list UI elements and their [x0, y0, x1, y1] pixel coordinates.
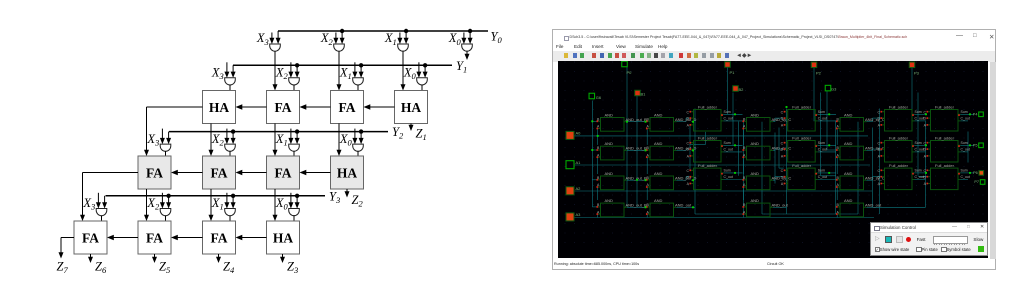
- full adder FA1 (row B): [138, 156, 171, 189]
- full adder row 3 col 4: [923, 162, 969, 189]
- svg-text:Full_adder: Full_adder: [698, 104, 718, 109]
- svg-text:AND_out_B: AND_out_B: [626, 202, 647, 207]
- wire gate output into adder (row 3 col 1): [229, 151, 231, 156]
- svg-text:X0: X0: [339, 132, 353, 148]
- node junction on Y2 at X1 column: [295, 129, 299, 133]
- wire Y3 bus line: [106, 195, 326, 197]
- wire Y2 drop into G31: [166, 132, 171, 145]
- wire gate output into adder (row 3 col 0): [165, 151, 167, 156]
- svg-text:Y1: Y1: [456, 59, 467, 75]
- svg-text:AND: AND: [605, 112, 614, 117]
- AND gate G43 (X1·Y3): [225, 209, 236, 216]
- svg-text:AND: AND: [844, 141, 853, 146]
- pin G6: [589, 93, 602, 100]
- wire Y0 drop into G11: [276, 31, 281, 44]
- state indicator dots: [591, 106, 971, 208]
- wire X3 input stub into G31: [160, 129, 165, 145]
- svg-text:Full_adder: Full_adder: [889, 162, 909, 167]
- wire Y0 bus line: [278, 30, 488, 32]
- wire sum from row A to row B at x=275: [273, 124, 278, 157]
- svg-text:Full_adder: Full_adder: [792, 135, 812, 140]
- wire Y2 drop into G33: [295, 132, 300, 145]
- wire output Z2 from HA row B: [345, 189, 350, 198]
- svg-text:B2: B2: [739, 87, 745, 92]
- svg-text:AND: AND: [654, 197, 663, 202]
- svg-text:Sum: Sum: [915, 109, 922, 113]
- wire X3 input stub into G11: [269, 33, 274, 45]
- full adder row 2 col 3: [877, 135, 923, 162]
- node junction on Y2 at X0 column: [359, 129, 363, 133]
- svg-text:AND: AND: [751, 197, 760, 202]
- full adder row 2 col 4: [923, 135, 969, 162]
- svg-text:Z5: Z5: [159, 260, 170, 276]
- svg-text:Full_adder: Full_adder: [935, 162, 955, 167]
- wire Y3 drop into G43: [231, 196, 236, 209]
- svg-text:A2: A2: [576, 185, 582, 190]
- full adder row 3 col 3: [877, 162, 923, 189]
- svg-text:X0: X0: [275, 196, 289, 212]
- AND gate row 2 col 4: [836, 141, 885, 160]
- full adder row 1 col 2: [781, 104, 827, 131]
- svg-text:P7: P7: [974, 180, 979, 184]
- svg-text:C_out: C_out: [818, 175, 827, 179]
- svg-text:AND: AND: [605, 197, 614, 202]
- wire X1 input stub into G33: [288, 129, 293, 145]
- wire carry arrow row A (HA4 to FA3): [364, 104, 395, 109]
- wire inter-row step connectors: [574, 67, 974, 218]
- wire Y2 drop into G34: [359, 132, 364, 145]
- node output Z3 label: [287, 260, 298, 276]
- wire Y0 drop into G12: [340, 31, 345, 44]
- full adder row 3 col 2: [781, 162, 827, 189]
- node junction on Y1 at X0 column: [423, 63, 427, 67]
- full adder row 3 col 1: [686, 162, 732, 189]
- wire sum from row B to row C at x=146.5: [144, 189, 149, 221]
- svg-text:X0: X0: [448, 31, 462, 47]
- svg-text:C_out: C_out: [818, 147, 827, 151]
- wire output Z4 from row C adder: [216, 254, 221, 263]
- svg-text:HA: HA: [337, 165, 358, 180]
- wire X3 input stub into G41: [96, 193, 101, 209]
- wire gate output into adder (row 2 col 2): [357, 85, 359, 91]
- wire X0 input stub into G34: [352, 129, 357, 145]
- AND gate row 4 col 1: [596, 197, 647, 216]
- svg-text:FA: FA: [211, 165, 228, 180]
- node X1 input label (row 2): [339, 66, 352, 82]
- svg-text:Sum: Sum: [818, 109, 825, 113]
- wire output Z1 from HA row A: [409, 124, 414, 132]
- DSch schematic editor window (right): [552, 29, 996, 271]
- wire Y3 drop into G44: [295, 196, 300, 209]
- svg-text:A3: A3: [576, 212, 582, 217]
- node junction on Y3 at X2 column: [166, 194, 170, 198]
- wire X1 input stub into G43: [224, 193, 229, 209]
- full adder row 1 col 1: [686, 104, 732, 131]
- svg-text:AND: AND: [751, 170, 760, 175]
- svg-text:AND: AND: [751, 141, 760, 146]
- node junction on Y0 at X1 column: [404, 29, 408, 33]
- svg-text:FA: FA: [146, 230, 163, 245]
- full adder row 2 col 1: [686, 135, 732, 162]
- node X0 input label (row 3): [339, 132, 353, 148]
- svg-text:Z6: Z6: [95, 260, 107, 276]
- svg-text:AND: AND: [654, 170, 663, 175]
- wire gate output into adder (row 4 col 2): [229, 216, 231, 222]
- svg-text:AND_out_B: AND_out_B: [626, 116, 647, 121]
- node output Z2 label: [352, 193, 364, 209]
- AND gate G23 (X1·Y1): [353, 78, 364, 85]
- svg-text:HA: HA: [209, 100, 230, 115]
- full adder FA2 (row A): [267, 91, 300, 124]
- AND gate G41 (X3·Y3): [96, 209, 107, 216]
- wire carry arrow row B (HA4 to FA3): [300, 170, 331, 175]
- wire partial product X0Y0 output Z0: [465, 51, 470, 60]
- svg-text:AND: AND: [654, 141, 663, 146]
- AND gate row 1 col 1: [596, 112, 647, 131]
- AND gate row 1 col 3: [742, 112, 791, 131]
- wire Y2 drop into G32: [231, 132, 236, 145]
- AND gate row 2 col 1: [596, 141, 647, 160]
- wire X2 input stub into G42: [160, 193, 165, 209]
- wire carry arrow row C (FA3 to FA2): [171, 235, 203, 240]
- svg-text:FA: FA: [275, 100, 292, 115]
- wire carry out of HA row A down to FA row B: [144, 107, 203, 156]
- svg-text:C_out: C_out: [915, 175, 924, 179]
- svg-text:FA: FA: [339, 100, 356, 115]
- svg-text:HA: HA: [273, 230, 294, 245]
- svg-text:Y3: Y3: [329, 189, 340, 205]
- svg-text:X1: X1: [275, 132, 288, 148]
- svg-text:P6: P6: [973, 171, 978, 175]
- svg-text:C_out: C_out: [915, 147, 924, 151]
- wire sum from row A to row B at x=339: [337, 124, 342, 157]
- svg-text:C_out: C_out: [915, 116, 924, 120]
- wire carry arrow row A (FA3 to FA2): [300, 104, 331, 109]
- node junction on Y3 at X0 column: [295, 194, 299, 198]
- wire output Z6 from row C adder: [88, 254, 93, 263]
- wire partial product X1Y0 into row-A adder: [401, 51, 406, 90]
- wire partial product X3Y0 into row-A adder: [273, 51, 278, 90]
- full adder FA2 (row B): [203, 156, 236, 189]
- svg-text:AND_out: AND_out: [675, 202, 692, 207]
- svg-text:X3: X3: [146, 132, 159, 148]
- svg-text:Sum: Sum: [818, 168, 825, 172]
- svg-text:Sum: Sum: [818, 140, 825, 144]
- node output Z7 label: [57, 260, 69, 276]
- wire carry arrow row B (FA2 to FA1): [171, 170, 203, 175]
- wire Y1 drop into G22: [295, 65, 300, 78]
- pin P1: [725, 61, 735, 74]
- node X2 input label (row 2): [275, 66, 289, 82]
- svg-text:X2: X2: [275, 66, 289, 82]
- svg-text:HA: HA: [401, 100, 422, 115]
- svg-text:Sum: Sum: [915, 168, 922, 172]
- wire Y2 bus line: [169, 131, 388, 133]
- svg-text:Y0: Y0: [491, 30, 503, 46]
- pin P5: [973, 143, 984, 148]
- wire X0 input stub into G14: [461, 33, 466, 45]
- node output Z4 label: [223, 260, 235, 276]
- svg-text:X1: X1: [384, 31, 397, 47]
- pin B1: [635, 90, 646, 96]
- svg-text:X0: X0: [403, 66, 417, 82]
- svg-text:AND_out: AND_out: [865, 202, 882, 207]
- svg-text:X3: X3: [82, 196, 95, 212]
- node X3 input label (row 2): [211, 66, 224, 82]
- svg-text:X3: X3: [211, 66, 224, 82]
- node output Z5 label: [159, 260, 170, 276]
- AND gate G14 (X0·Y0): [462, 44, 473, 51]
- svg-text:Full_adder: Full_adder: [889, 104, 909, 109]
- AND gate G34 (X0·Y2): [353, 144, 364, 151]
- wire gate output into adder (row 2 col 0): [229, 85, 231, 91]
- AND gate row 1 col 4: [836, 112, 885, 131]
- full adder FA3 (row A): [331, 91, 364, 124]
- svg-text:AND: AND: [844, 112, 853, 117]
- pin P4: [973, 112, 984, 117]
- svg-text:P5: P5: [973, 143, 978, 147]
- wire gate output into adder (row 3 col 2): [293, 151, 295, 156]
- wire Y0 drop into G14: [468, 31, 473, 44]
- svg-text:Full_adder: Full_adder: [889, 135, 909, 140]
- svg-text:Sum: Sum: [961, 109, 968, 113]
- full adder FA3 (row C): [203, 221, 236, 254]
- svg-text:Full_adder: Full_adder: [792, 104, 812, 109]
- AND gate G11 (X3·Y0): [270, 44, 281, 51]
- wire gate output into adder (row 2 col 3): [421, 85, 423, 91]
- node output Z6 label: [95, 260, 107, 276]
- wire X2 input stub into G12: [333, 33, 338, 45]
- wire X2 input stub into G32: [224, 129, 229, 145]
- pin G3: [825, 85, 837, 91]
- node X3 input label (row 3): [146, 132, 159, 148]
- wire gate output into adder (row 2 col 1): [293, 85, 295, 91]
- svg-text:Sum: Sum: [724, 109, 731, 113]
- pin P0: [622, 61, 632, 75]
- node Y2 label: [392, 125, 404, 141]
- AND gate G21 (X3·Y1): [225, 78, 236, 85]
- array multiplier block diagram (left): [0, 0, 552, 295]
- pin P7: [974, 179, 984, 184]
- svg-text:Y2: Y2: [392, 125, 404, 141]
- wire X0 input stub into G44: [288, 193, 293, 209]
- pin P2: [811, 62, 821, 75]
- svg-text:FA: FA: [82, 230, 99, 245]
- node X2 input label (row 1): [320, 31, 334, 47]
- wire X1 input stub into G23: [352, 62, 357, 78]
- node X0 input label (row 2): [403, 66, 417, 82]
- svg-text:Sum: Sum: [724, 140, 731, 144]
- pin P6: [973, 170, 984, 175]
- AND gate G12 (X2·Y0): [334, 44, 345, 51]
- wire carry arrow row C (HA4 to FA3): [236, 235, 267, 240]
- pin B2: [733, 85, 744, 91]
- full adder row 1 col 3: [877, 104, 923, 131]
- pin A2: [566, 185, 581, 194]
- svg-text:X1: X1: [211, 196, 224, 212]
- svg-text:AND: AND: [844, 197, 853, 202]
- node junction on Y1 at X2 column: [295, 63, 299, 67]
- svg-text:A0: A0: [576, 130, 582, 135]
- AND gate row 4 col 2: [646, 197, 692, 216]
- svg-text:Sum: Sum: [724, 168, 731, 172]
- node X1 input label (row 3): [275, 132, 288, 148]
- AND gate G33 (X1·Y2): [289, 144, 300, 151]
- wire carry arrow row C (FA2 to FA1): [107, 235, 138, 240]
- svg-text:Full_adder: Full_adder: [935, 104, 955, 109]
- svg-text:AND: AND: [751, 112, 760, 117]
- node junction on Y0 at X2 column: [340, 29, 344, 33]
- node Y0 label: [491, 30, 503, 46]
- svg-text:C_out: C_out: [961, 116, 970, 120]
- half adder HA4 (row A): [395, 91, 428, 124]
- AND gate G13 (X1·Y0): [398, 44, 409, 51]
- AND gate row 4 col 4: [836, 197, 882, 216]
- wire sum from row B to row C at x=211: [209, 189, 214, 221]
- svg-text:C_out: C_out: [724, 147, 733, 151]
- wire output Z5 from row C adder: [152, 254, 157, 263]
- node X3 input label (row 4): [82, 196, 95, 212]
- AND gate G44 (X0·Y3): [289, 209, 300, 216]
- svg-text:P1: P1: [730, 70, 736, 75]
- svg-text:AND: AND: [654, 112, 663, 117]
- node X2 input label (row 4): [146, 196, 160, 212]
- node X2 input label (row 3): [211, 132, 225, 148]
- half adder HA1 (row A): [203, 91, 236, 124]
- svg-text:Full_adder: Full_adder: [698, 162, 718, 167]
- AND gate row 2 col 3: [742, 141, 791, 160]
- full adder FA3 (row B): [267, 156, 300, 189]
- svg-text:FA: FA: [275, 165, 292, 180]
- svg-text:X1: X1: [339, 66, 352, 82]
- wire carry arrow row A (FA2 to HA1): [236, 104, 267, 109]
- wire Y3 drop into G42: [166, 196, 171, 209]
- AND gate G42 (X2·Y3): [160, 209, 171, 216]
- AND gate G24 (X0·Y1): [417, 78, 428, 85]
- svg-text:Full_adder: Full_adder: [935, 135, 955, 140]
- svg-text:FA: FA: [146, 165, 163, 180]
- wire partial product X2Y0 into row-A adder: [337, 51, 342, 90]
- node X3 input label (row 1): [256, 31, 269, 47]
- svg-text:P2: P2: [816, 70, 822, 75]
- svg-text:AND_out: AND_out: [772, 202, 789, 207]
- svg-text:AND: AND: [605, 141, 614, 146]
- node X0 input label (row 1): [448, 31, 462, 47]
- svg-text:P3: P3: [914, 70, 920, 75]
- wire Y1 drop into G24: [423, 65, 428, 78]
- AND gate G31 (X3·Y2): [160, 144, 171, 151]
- wire output Z3 from row C adder: [280, 254, 285, 263]
- node X0 input label (row 4): [275, 196, 289, 212]
- full adder FA2 (row C): [138, 221, 171, 254]
- svg-text:Z7: Z7: [57, 260, 69, 276]
- wire X1 input stub into G13: [397, 33, 402, 45]
- svg-text:C_out: C_out: [961, 175, 970, 179]
- wire X2 input stub into G22: [288, 62, 293, 78]
- pin A0: [566, 130, 581, 139]
- node X1 input label (row 4): [211, 196, 224, 212]
- svg-text:G3: G3: [831, 86, 837, 91]
- wire sum from row B to row C at x=275: [273, 189, 278, 221]
- node output Z1 label: [416, 127, 427, 143]
- wire carry out of FA row C to output Z7: [59, 238, 75, 259]
- wire Y3 drop into G41: [102, 196, 107, 209]
- half adder HA4 (row C): [267, 221, 300, 254]
- svg-text:Z2: Z2: [352, 193, 364, 209]
- node Y1 label: [456, 59, 467, 75]
- svg-text:Sum: Sum: [961, 168, 968, 172]
- node X1 input label (row 1): [384, 31, 397, 47]
- AND gate row 3 col 4: [836, 170, 885, 189]
- full adder FA1 (row C): [74, 221, 107, 254]
- half adder HA4 (row B): [331, 156, 364, 189]
- wire gate output into adder (row 4 col 0): [101, 216, 103, 222]
- svg-text:FA: FA: [211, 230, 228, 245]
- wire gate output into adder (row 4 col 1): [165, 216, 167, 222]
- svg-text:Full_adder: Full_adder: [698, 135, 718, 140]
- AND gate row 2 col 2: [646, 141, 697, 160]
- AND gate row 1 col 2: [646, 112, 697, 131]
- svg-text:Z4: Z4: [223, 260, 235, 276]
- AND gate row 3 col 2: [646, 170, 697, 189]
- wire X3 input stub into G21: [224, 62, 229, 78]
- wire gate output into adder (row 4 col 3): [293, 216, 295, 222]
- svg-text:X2: X2: [320, 31, 334, 47]
- pin P3: [909, 62, 919, 75]
- node junction on Y1 at X1 column: [359, 63, 363, 67]
- svg-text:A1: A1: [576, 159, 582, 164]
- svg-text:Z3: Z3: [287, 260, 298, 276]
- wire Y1 drop into G23: [359, 65, 364, 78]
- svg-text:C_out: C_out: [724, 175, 733, 179]
- svg-text:X2: X2: [146, 196, 160, 212]
- svg-text:X3: X3: [256, 31, 269, 47]
- full adder row 1 col 4: [923, 104, 969, 131]
- node junction on Y0 at X0 column: [468, 29, 472, 33]
- AND gate G32 (X2·Y2): [225, 144, 236, 151]
- svg-text:AND: AND: [844, 170, 853, 175]
- svg-text:AND: AND: [605, 170, 614, 175]
- svg-text:X2: X2: [211, 132, 225, 148]
- AND gate G22 (X2·Y1): [289, 78, 300, 85]
- svg-text:B1: B1: [641, 91, 647, 96]
- svg-text:G6: G6: [596, 95, 602, 100]
- wire Y1 bus line: [233, 64, 452, 66]
- node junction on Y2 at X2 column: [231, 129, 235, 133]
- AND gate row 4 col 3: [742, 197, 788, 216]
- pin A3: [566, 212, 581, 221]
- svg-text:Z1: Z1: [416, 127, 427, 143]
- pin A1: [566, 159, 581, 168]
- svg-text:P0: P0: [627, 70, 633, 75]
- wire Y0 drop into G13: [404, 31, 409, 44]
- svg-text:C_out: C_out: [818, 116, 827, 120]
- wire Y1 drop into G21: [231, 65, 236, 78]
- wire carry arrow row B (FA3 to FA2): [236, 170, 267, 175]
- svg-text:Sum: Sum: [961, 140, 968, 144]
- node Y3 label: [329, 189, 340, 205]
- wire X0 input stub into G24: [416, 62, 421, 78]
- svg-text:Full_adder: Full_adder: [792, 162, 812, 167]
- svg-text:C_out: C_out: [961, 147, 970, 151]
- full adder row 2 col 2: [781, 135, 827, 162]
- AND gate row 3 col 3: [742, 170, 791, 189]
- wire carry out of FA row B down to FA row C: [80, 173, 138, 222]
- wire gate output into adder (row 3 col 3): [357, 151, 359, 156]
- node junction on Y3 at X1 column: [231, 194, 235, 198]
- svg-text:C_out: C_out: [724, 116, 733, 120]
- wire sum from row A to row B at x=211: [209, 124, 214, 157]
